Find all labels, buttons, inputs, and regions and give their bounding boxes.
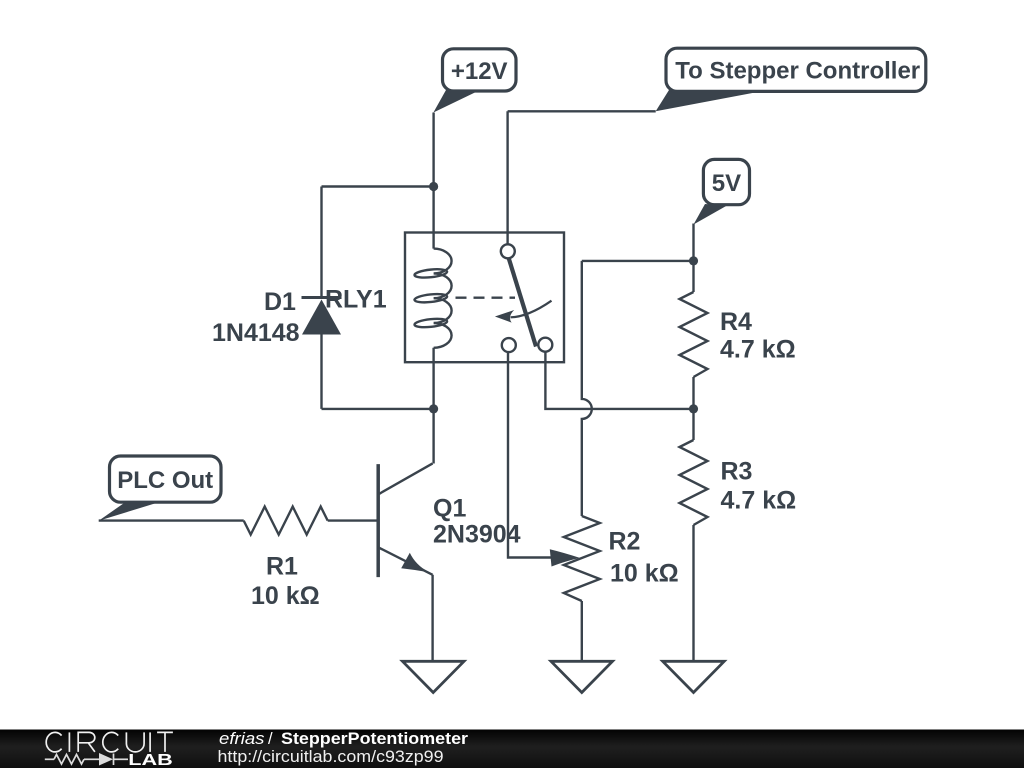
wire D1 top vertical bbox=[320, 187, 322, 299]
svg-text:LAB: LAB bbox=[128, 752, 173, 768]
relay RLY1 throw arrowhead bbox=[495, 310, 514, 323]
wire Q1 emitter to ground bbox=[431, 575, 433, 662]
resistor R3 zigzag bbox=[680, 440, 708, 525]
resistor R1 zigzag bbox=[244, 507, 328, 535]
wire R4 bottom to node bbox=[692, 377, 694, 440]
svg-text:R3: R3 bbox=[721, 458, 753, 486]
wire 5V node to R2 branch horizontal bbox=[582, 260, 694, 262]
svg-text:D1: D1 bbox=[264, 288, 296, 316]
wire relay NO contact down and right to R3/R4 node bbox=[545, 352, 693, 409]
svg-text:+12V: +12V bbox=[451, 58, 508, 85]
flag 5V bbox=[694, 159, 750, 224]
junction node at coil bottom / D1 bbox=[429, 404, 438, 413]
relay RLY1 NO pin circle bbox=[538, 338, 552, 352]
ground symbol under Q1 bbox=[403, 661, 465, 692]
transistor Q1 base bar bbox=[376, 464, 380, 577]
wire top horizontal from D1 branch to node A bbox=[322, 185, 434, 187]
svg-text:efrias: efrias bbox=[219, 730, 265, 748]
svg-text:1N4148: 1N4148 bbox=[212, 319, 300, 347]
transistor Q1 emitter diagonal bbox=[378, 547, 432, 575]
junction node at 5V / R4 top bbox=[689, 256, 698, 265]
ground symbol under R3 bbox=[663, 661, 725, 692]
resistor R4 zigzag bbox=[680, 292, 708, 377]
diode D1 cathode bar bbox=[302, 296, 342, 299]
potentiometer R2 wiper arrow bbox=[550, 549, 580, 566]
wire R3 bottom to ground bbox=[692, 525, 694, 661]
svg-text:Q1: Q1 bbox=[433, 495, 466, 523]
relay RLY1 throw direction arc bbox=[511, 301, 552, 318]
wire R1 to Q1 base bbox=[328, 519, 377, 521]
svg-text:4.7 kΩ: 4.7 kΩ bbox=[720, 336, 796, 364]
relay RLY1 coil petal 1 bbox=[414, 268, 447, 279]
wire R4 top bbox=[692, 261, 694, 292]
junction node at R4/R3 bbox=[689, 404, 698, 413]
flag +12V bbox=[433, 49, 516, 113]
relay RLY1 coil petal 2 bbox=[414, 293, 447, 304]
relay RLY1 coil bumps bbox=[434, 249, 452, 348]
footer logo CIRCUIT bbox=[46, 732, 173, 752]
ground symbol under R2 bbox=[551, 661, 613, 692]
svg-text:StepperPotentiometer: StepperPotentiometer bbox=[281, 730, 469, 748]
svg-text:R4: R4 bbox=[720, 308, 752, 336]
transistor Q1 emitter arrowhead bbox=[401, 553, 429, 572]
transistor Q1 collector diagonal bbox=[378, 463, 432, 494]
flag PLC Out bbox=[99, 456, 221, 521]
relay RLY1 dashed actuation line bbox=[456, 297, 516, 299]
svg-text:/: / bbox=[268, 730, 273, 748]
relay RLY1 switch arm bbox=[509, 258, 537, 347]
wire To Stepper Controller horizontal bbox=[508, 110, 656, 112]
svg-text:http://circuitlab.com/c93zp99: http://circuitlab.com/c93zp99 bbox=[218, 748, 444, 766]
svg-text:To Stepper Controller: To Stepper Controller bbox=[675, 58, 920, 85]
wire R2 branch vertical with hop over crossing bbox=[582, 261, 592, 516]
wire 5V stem bbox=[692, 224, 694, 261]
flag To Stepper Controller bbox=[656, 48, 926, 111]
relay RLY1 coil petal 3 bbox=[414, 318, 447, 329]
wire coil bottom to Q1 collector bbox=[432, 348, 434, 464]
svg-text:R2: R2 bbox=[609, 528, 641, 556]
relay RLY1 NC pin circle bbox=[502, 338, 516, 352]
wire D1 bottom vertical bbox=[320, 334, 322, 409]
svg-text:2N3904: 2N3904 bbox=[433, 521, 521, 549]
footer logo resistor-diode line bbox=[45, 754, 128, 766]
relay RLY1 common pin circle bbox=[501, 244, 515, 258]
svg-text:5V: 5V bbox=[712, 170, 741, 197]
diode D1 triangle bbox=[302, 300, 341, 335]
svg-text:10 kΩ: 10 kΩ bbox=[610, 560, 679, 588]
wire PLC Out to R1 bbox=[99, 519, 244, 521]
svg-text:10 kΩ: 10 kΩ bbox=[251, 582, 320, 610]
relay RLY1 body box bbox=[405, 233, 564, 363]
svg-text:PLC Out: PLC Out bbox=[117, 467, 213, 494]
svg-text:R1: R1 bbox=[266, 553, 298, 581]
wire +12V stem down to node A bbox=[432, 113, 434, 249]
wire To Stepper Controller vertical down to relay common pin bbox=[506, 111, 508, 244]
wire R2 bottom to ground bbox=[581, 601, 583, 661]
potentiometer R2 zigzag bbox=[564, 516, 600, 601]
junction node A at +12V branch bbox=[429, 182, 438, 191]
svg-text:RLY1: RLY1 bbox=[325, 286, 387, 314]
svg-text:4.7 kΩ: 4.7 kΩ bbox=[721, 487, 797, 515]
wire bottom horizontal D1 to coil node bbox=[322, 408, 434, 410]
wire relay NC contact down to R2 wiper bbox=[508, 352, 551, 557]
